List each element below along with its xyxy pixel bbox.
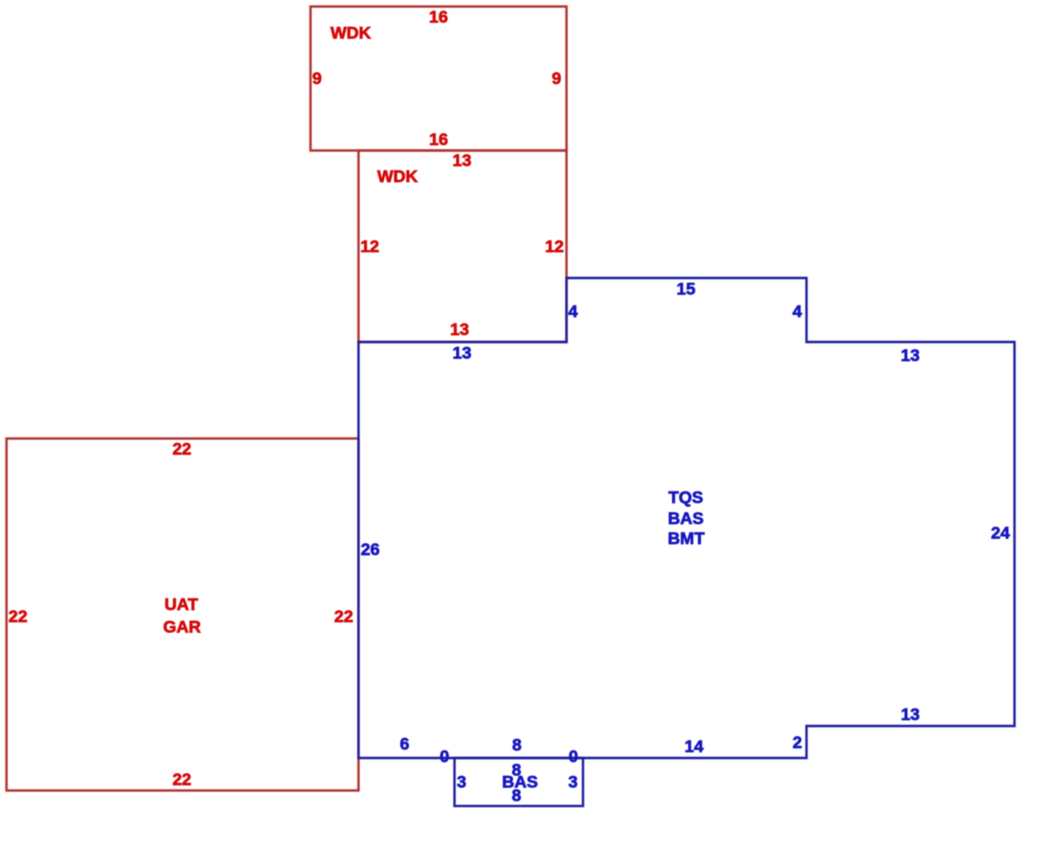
svg-text:0: 0: [440, 747, 449, 766]
room TQS BAS BMT main house outline: [359, 278, 1015, 758]
room WDK upper deck outline: [311, 7, 567, 151]
svg-text:4: 4: [792, 302, 802, 321]
svg-text:13: 13: [453, 343, 472, 362]
svg-text:BAS: BAS: [668, 509, 704, 528]
svg-text:13: 13: [450, 320, 469, 339]
svg-text:3: 3: [457, 772, 466, 791]
svg-text:22: 22: [334, 607, 353, 626]
room WDK lower deck outline: [359, 151, 567, 343]
svg-text:WDK: WDK: [377, 167, 418, 186]
svg-text:22: 22: [172, 770, 191, 789]
svg-text:2: 2: [793, 733, 802, 752]
svg-text:13: 13: [901, 705, 920, 724]
room UAT GAR garage outline: [7, 439, 359, 791]
svg-text:9: 9: [552, 69, 561, 88]
svg-text:4: 4: [568, 302, 578, 321]
svg-text:12: 12: [545, 237, 564, 256]
svg-text:15: 15: [677, 280, 696, 299]
room BAS small basement bump-out outline: [455, 758, 584, 806]
svg-text:6: 6: [400, 735, 409, 754]
svg-text:13: 13: [453, 151, 472, 170]
svg-text:BMT: BMT: [668, 529, 705, 548]
svg-text:24: 24: [991, 524, 1010, 543]
svg-text:12: 12: [360, 237, 379, 256]
svg-text:TQS: TQS: [668, 488, 703, 507]
svg-text:16: 16: [429, 130, 448, 149]
svg-text:14: 14: [685, 737, 704, 756]
svg-text:GAR: GAR: [163, 618, 201, 637]
svg-text:26: 26: [361, 540, 380, 559]
svg-text:22: 22: [9, 607, 28, 626]
svg-text:UAT: UAT: [164, 595, 198, 614]
svg-text:0: 0: [569, 747, 578, 766]
svg-text:9: 9: [312, 69, 321, 88]
svg-text:WDK: WDK: [330, 23, 371, 42]
svg-text:13: 13: [901, 346, 920, 365]
svg-text:3: 3: [568, 772, 577, 791]
svg-text:8: 8: [512, 786, 521, 805]
svg-text:16: 16: [429, 7, 448, 26]
svg-text:8: 8: [512, 735, 521, 754]
svg-text:22: 22: [172, 439, 191, 458]
